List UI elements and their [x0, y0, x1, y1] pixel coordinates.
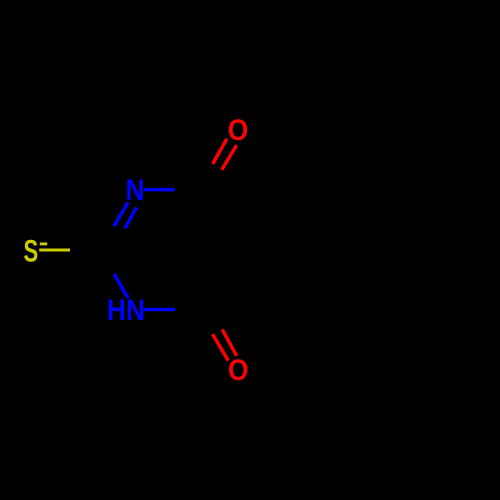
svg-text:N: N: [125, 172, 144, 206]
bond C2=N3 inner double line (nitrogen half, blue): [125, 207, 137, 228]
bond S-C2 (sulfur half, yellow): [39, 249, 70, 252]
bond N3-C4 (nitrogen half, blue): [144, 188, 175, 192]
charge minus sign on S1: [40, 243, 47, 246]
svg-text:O: O: [228, 112, 249, 146]
bond C6=O main line (oxygen half, red): [222, 329, 236, 355]
bond C6=O second double line (oxygen half, red): [213, 334, 229, 360]
bond C2-N1 (nitrogen half, blue): [114, 274, 128, 298]
bond C4=O second double line (oxygen half, red): [213, 139, 227, 164]
svg-text:S: S: [24, 233, 39, 269]
bond C4=O main line (oxygen half, red): [222, 145, 237, 170]
svg-text:HN: HN: [107, 292, 145, 326]
bond N1-C6 (nitrogen half, blue): [144, 308, 175, 312]
svg-text:O: O: [228, 352, 249, 386]
bond C2=N3 main line (nitrogen half, blue): [114, 202, 128, 226]
